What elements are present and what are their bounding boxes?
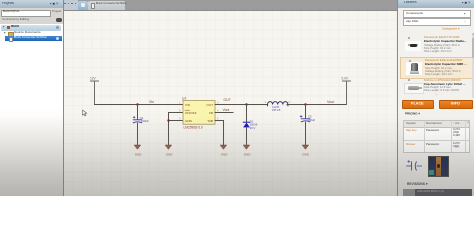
- svg-text:GND: GND: [244, 153, 252, 157]
- svg-text:VIN: VIN: [185, 103, 190, 107]
- schematic canvas sheet: [63, 10, 397, 196]
- previews: [455, 146, 459, 150]
- svg-text:ON/OFF: ON/OFF: [185, 111, 197, 115]
- toolbar area: [0, 8, 63, 24]
- svg-text:OUT: OUT: [206, 103, 213, 107]
- search: [403, 18, 471, 26]
- canvas top tab bar: [63, 0, 397, 11]
- item 1: [400, 34, 472, 57]
- wire: L1 to output: [287, 104, 347, 106]
- ground under D1: [243, 145, 251, 157]
- junction at C3: [304, 103, 306, 105]
- wire: TAB to ground: [215, 121, 224, 146]
- header: [398, 0, 474, 8]
- wire: D1 top: [246, 105, 248, 122]
- ground under TAB: [220, 145, 228, 157]
- svg-text:GND: GND: [185, 119, 193, 123]
- svg-text:LM2596S-5.0: LM2596S-5.0: [184, 126, 203, 130]
- junction at D1: [245, 103, 247, 105]
- wire: main input rail: [95, 104, 184, 106]
- svg-text:3: 3: [179, 117, 181, 121]
- svg-text:C3: C3: [308, 115, 312, 119]
- svg-text:FB: FB: [209, 111, 213, 115]
- ground under IC: [165, 145, 173, 157]
- revisions: [407, 182, 428, 186]
- svg-text:U1: U1: [182, 97, 186, 101]
- wire: C3 bottom: [305, 122, 307, 145]
- combo: [403, 10, 471, 18]
- capacitor C1: [133, 116, 142, 122]
- PLACE button: [402, 100, 434, 110]
- svg-text:100uF: 100uF: [141, 119, 149, 123]
- categories link: [442, 27, 460, 31]
- svg-text:40 V: 40 V: [250, 126, 256, 130]
- ground under C3: [302, 145, 310, 157]
- svg-text:GND: GND: [221, 153, 229, 157]
- svg-text:12V: 12V: [90, 77, 97, 81]
- svg-text:Vout: Vout: [327, 100, 334, 104]
- tree: [0, 24, 63, 104]
- pricing: [405, 112, 420, 116]
- inductor L1: [268, 102, 288, 106]
- svg-text:5: 5: [179, 109, 181, 113]
- svg-text:1: 1: [179, 101, 181, 105]
- power port VOUT (top-right): [343, 81, 351, 105]
- wire: FB stub: [215, 112, 233, 114]
- wire: C1 top: [137, 105, 139, 120]
- svg-text:33T1 B: 33T1 B: [272, 108, 281, 112]
- svg-text:TAB: TAB: [207, 119, 213, 123]
- list scrollbar: [472, 33, 474, 98]
- svg-text:5.0V: 5.0V: [342, 77, 349, 81]
- svg-text:6: 6: [217, 117, 219, 121]
- wire: D1 bottom: [246, 127, 248, 145]
- pin numbers: [179, 101, 219, 121]
- svg-text:100uF: 100uF: [308, 118, 316, 122]
- svg-text:Vout: Vout: [223, 108, 230, 112]
- wire: ON/OFF + GND tie: [169, 113, 184, 146]
- item 2 (highlighted): [400, 57, 474, 79]
- INFO button: [439, 100, 473, 110]
- wire: C3 top: [305, 105, 307, 119]
- svg-text:1: 1: [265, 100, 267, 104]
- svg-text:4: 4: [217, 109, 219, 113]
- mouse cursor: [83, 110, 87, 116]
- svg-text:GND: GND: [135, 153, 143, 157]
- svg-text:2: 2: [217, 101, 219, 105]
- wire: OUT rail: [215, 104, 267, 106]
- svg-text:Vin: Vin: [149, 100, 154, 104]
- ground under C1: [134, 145, 142, 157]
- power port VIN (top-left): [91, 81, 99, 105]
- svg-text:GND: GND: [166, 153, 174, 157]
- junction at C1: [136, 103, 138, 105]
- IC U1 LM2596S-5.0: [179, 97, 219, 130]
- svg-text:GND: GND: [302, 153, 310, 157]
- diode D1: [243, 120, 257, 130]
- header: [0, 0, 63, 9]
- capacitor C3: [300, 116, 310, 122]
- svg-text:OUT: OUT: [224, 98, 231, 102]
- wire: C1 bottom: [137, 123, 139, 145]
- svg-text:2: 2: [289, 100, 291, 104]
- item 3: [400, 77, 472, 98]
